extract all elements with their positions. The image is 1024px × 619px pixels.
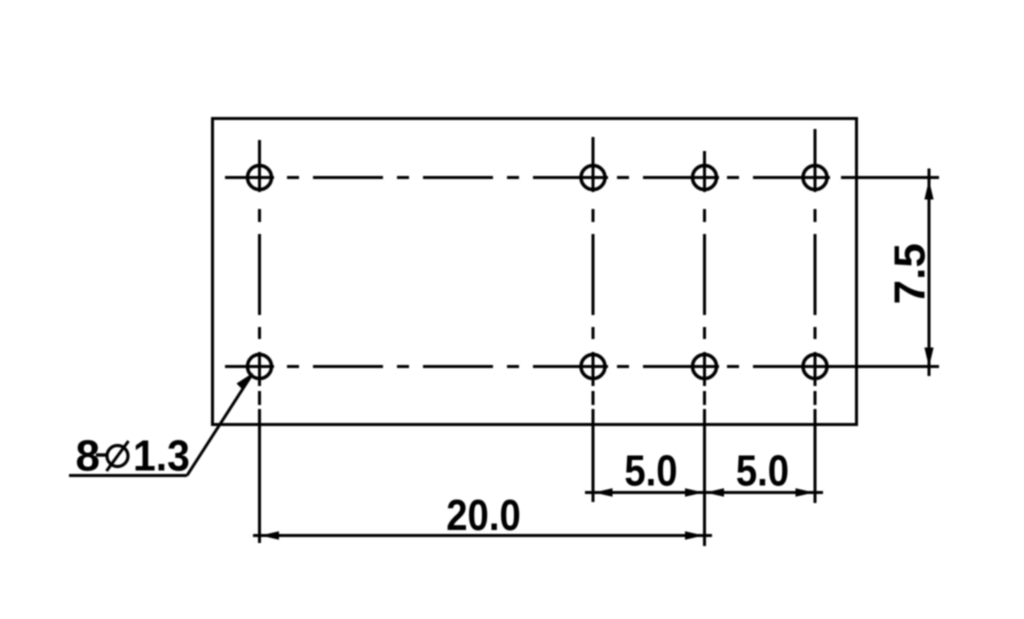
svg-text:7.5: 7.5 bbox=[886, 243, 935, 304]
svg-text:5.0: 5.0 bbox=[624, 446, 677, 495]
svg-text:20.0: 20.0 bbox=[446, 491, 520, 540]
svg-text:5.0: 5.0 bbox=[736, 446, 789, 495]
svg-text:1.3: 1.3 bbox=[133, 432, 190, 481]
